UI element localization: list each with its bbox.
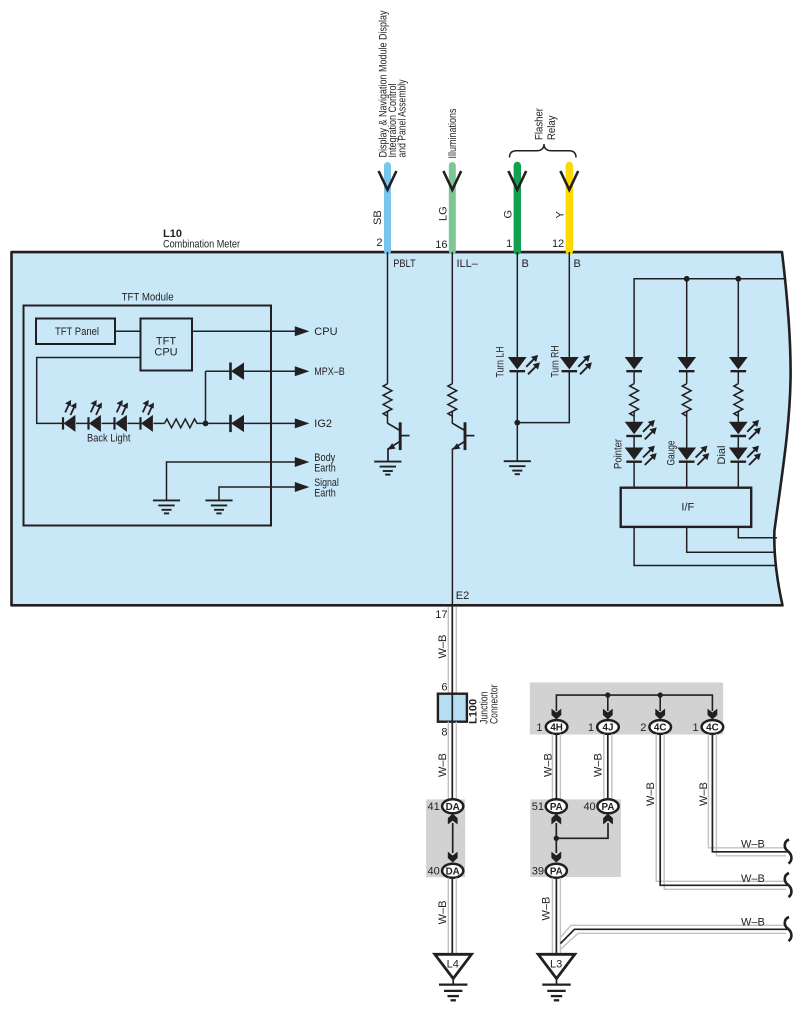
svg-text:CPU: CPU [314,326,337,338]
connector DA upper [442,799,463,813]
wire W-B PA 39 to L3 [552,878,560,955]
LED Turn LH [508,357,527,371]
svg-text:Turn RH: Turn RH [550,345,562,377]
wire W-B pin17 to L100 [448,606,456,694]
LED dial 2 [729,448,748,462]
svg-text:16: 16 [435,239,447,251]
wire Y (Flasher Relay) [566,166,573,252]
backlight LED D4 [141,415,153,432]
wire resistor to Q1 [387,412,389,424]
svg-text:I/F: I/F [681,502,694,514]
connector 4J [597,720,619,734]
arrow into 4H [552,709,562,720]
junction block (4H/4J/4C/4C) [530,683,723,735]
wire between DA connectors [452,823,454,853]
wire gauge branch from bus [686,279,688,357]
connector block PA [530,799,621,877]
svg-text:W–B: W–B [741,839,765,851]
bus wire to illumination branches [634,279,784,357]
svg-text:PBLT: PBLT [393,258,416,270]
wire node up to MPX-B diode [205,371,207,423]
arrow into DA lower [448,852,458,863]
node PA join [554,836,559,841]
svg-text:TFT Module: TFT Module [122,292,174,304]
svg-text:Dial: Dial [716,446,728,465]
diode MPX-B [231,363,245,380]
backlight LED D1 [63,415,75,432]
node bus 4J [605,692,610,697]
svg-text:2: 2 [376,237,382,249]
connector arrow on G wire [508,171,526,190]
svg-text:Illuminations: Illuminations [447,108,459,158]
svg-text:1: 1 [588,722,594,734]
bus wire in junction block [556,695,712,711]
svg-text:TFT Panel: TFT Panel [55,326,99,338]
svg-text:W–B: W–B [698,782,710,806]
TFT Module box [24,306,272,526]
svg-text:B: B [522,258,529,270]
svg-text:IG2: IG2 [314,418,332,430]
svg-text:1: 1 [506,238,512,250]
brace Flasher Relay [510,144,577,158]
wire drop 4C [659,695,661,711]
connector 4C a [649,720,671,734]
wire I/F out 3 [738,527,777,538]
wire L3 to earth [556,979,558,985]
backlight LED D2 [89,415,101,432]
connector PA 39 [546,864,567,878]
diode dial branch [729,357,748,371]
svg-text:LG: LG [438,206,450,221]
ground point L4 [435,954,472,978]
svg-text:ILL–: ILL– [457,258,479,270]
node junction [203,421,209,427]
svg-text:Connector: Connector [489,684,501,724]
svg-text:4C: 4C [706,723,719,734]
resistor R2 on ILL- [448,384,457,417]
wire Q2 emitter to pin E2 [451,449,453,607]
wire W-B tap to right (bottom) [560,925,787,949]
ground point L3 [538,954,575,978]
svg-text:W–B: W–B [741,873,765,885]
ground (body earth) [153,500,180,513]
svg-text:39: 39 [532,866,544,878]
svg-text:MPX–B: MPX–B [314,366,345,378]
svg-text:L4: L4 [447,959,459,971]
wire drop 4J [607,695,609,711]
wire diode to MPX-B arrow [244,370,296,372]
transistor Q2 [452,422,474,450]
LED gauge [677,448,696,462]
svg-text:W–B: W–B [593,753,605,777]
svg-text:SB: SB [372,210,384,225]
connector arrow on LG wire [443,171,461,190]
arrow Signal Earth [295,482,310,492]
svg-text:PA: PA [602,802,615,813]
wire B from pin 12 to Turn RH LED [568,252,570,357]
svg-text:PA: PA [550,802,563,813]
ground turn signals [504,461,531,474]
resistor R1 on PBLT [383,384,392,417]
wire Turn LH to ground node [516,372,518,461]
wire Turn RH down and left to node [517,372,569,423]
junction connector L100 [438,694,467,722]
svg-text:Turn LH: Turn LH [495,346,507,377]
svg-text:W–B: W–B [437,635,449,659]
wire LED string segments [76,422,89,424]
connector arrow on Y wire [560,171,578,190]
ground Q1 [374,462,401,475]
wire L4 to earth [452,979,454,985]
svg-text:Back Light: Back Light [87,433,131,445]
wire PA internal [555,823,557,853]
wire resistor to Q2 [451,412,453,424]
break symbol wire 1 4C [785,840,792,864]
arrow into DA upper [448,814,458,825]
resistor dial branch [734,384,743,417]
svg-text:4H: 4H [550,723,563,734]
wire PBLT from pin 2 [387,252,389,384]
arrow into 4C b [708,709,718,720]
connector PA 51 [546,799,567,813]
svg-text:40: 40 [583,801,595,813]
break symbol bottom wire [785,917,792,941]
svg-text:and Panel Assembly: and Panel Assembly [397,79,409,157]
svg-text:W–B: W–B [437,901,449,925]
node bus/dial [735,276,741,282]
svg-text:W–B: W–B [541,897,553,921]
wire I/F out 2 [687,527,776,552]
wire W-B DA to L4 [448,878,456,955]
svg-text:17: 17 [435,609,447,621]
arrow IG2 [295,418,310,428]
TFT Panel box [36,319,115,345]
wire through L100 [451,694,453,722]
svg-text:1: 1 [692,722,698,734]
LED pointer 1 [625,422,644,436]
svg-text:W–B: W–B [645,782,657,806]
svg-text:Flasher: Flasher [534,108,546,140]
I/F box U1 [621,488,752,527]
connector PA 40 [597,799,618,813]
transistor Q1 [387,422,409,461]
TFT CPU box [141,319,193,371]
wire resistor to IG2 diode [197,422,231,424]
ground symbol L4 [439,985,467,1001]
svg-text:Earth: Earth [314,463,336,475]
connector DA lower [442,864,463,878]
wire W-B 4H to 51 PA [552,734,560,799]
svg-text:Earth: Earth [314,488,336,500]
wire W-B L100 to DA [448,722,456,800]
connector 4C b [702,720,724,734]
svg-text:Gauge: Gauge [666,441,678,466]
svg-text:Combination Meter: Combination Meter [163,239,240,251]
svg-text:Pointer: Pointer [613,439,625,469]
wire TFT CPU left to backlight string [37,358,141,424]
svg-text:51: 51 [532,801,544,813]
svg-text:4C: 4C [654,723,667,734]
svg-text:L3: L3 [550,959,562,971]
resistor gauge branch [682,384,691,417]
wire G (Flasher Relay) [514,166,521,252]
svg-text:CPU: CPU [154,347,177,359]
svg-text:8: 8 [441,727,447,739]
svg-text:E2: E2 [456,590,469,602]
LED Turn RH [560,357,579,371]
wire dial branch from bus [737,279,739,357]
arrow Body Earth [295,457,310,467]
svg-text:DA: DA [446,867,460,878]
wire Body Earth [167,462,297,501]
wire TFT CPU to CPU output [192,330,296,332]
connector 4H [546,720,568,734]
svg-text:B: B [574,258,581,270]
wire resistor to pointer LEDs [633,372,635,384]
svg-text:W–B: W–B [741,917,765,929]
node bus 4C [658,692,663,697]
svg-text:2: 2 [640,722,646,734]
wire W-B 4C b to right [708,734,787,856]
svg-text:DA: DA [446,802,460,813]
svg-text:40: 40 [428,866,440,878]
connector block DA [426,799,465,877]
wire TFT Panel to TFT CPU [115,330,141,332]
svg-text:1: 1 [536,722,542,734]
arrow into PA 51 [551,814,561,825]
svg-text:PA: PA [550,867,563,878]
wire LG (Illuminations) [449,166,456,252]
wire ILL- from pin 16 [451,252,453,384]
ground symbol L3 [542,985,570,1001]
svg-text:6: 6 [441,682,447,694]
wire diode to IG2 arrow [244,422,296,424]
svg-text:4J: 4J [603,723,614,734]
svg-text:W–B: W–B [543,753,555,777]
wire Signal Earth [219,487,296,501]
wire W-B 4J to 40 PA [604,734,612,799]
svg-text:41: 41 [428,801,440,813]
wire B from pin 1 to Turn LH LED [516,252,518,357]
svg-text:Relay: Relay [546,115,558,140]
svg-text:G: G [503,210,515,219]
resistor pointer branch [630,384,639,417]
wire W-B 4C a to right [656,734,787,889]
wire pointer LEDs [633,436,635,447]
diode pointer branch [625,357,644,371]
LED dial 1 [729,422,748,436]
LED pointer 2 [625,448,644,462]
arrow MPX-B [295,366,310,376]
ground (signal earth) [205,500,232,513]
svg-text:12: 12 [552,238,564,250]
break symbol wire 2 4C [785,873,792,897]
arrow into 4C a [655,709,665,720]
arrow into PA 39 [551,852,561,863]
node turn ground [514,420,520,426]
wire SB (to Display &amp; Navigation Module) [384,166,391,252]
arrow into 4J [603,709,613,720]
resistor backlight [165,419,198,428]
arrow CPU [295,326,310,336]
arrow into PA 40 [603,814,613,825]
svg-text:W–B: W–B [437,753,449,777]
node bus/gauge [684,276,690,282]
backlight LED D3 [115,415,127,432]
wire I/F out 1 [634,527,775,566]
svg-text:Y: Y [555,211,567,219]
combination meter box L10 [12,252,791,605]
diode IG2 [231,415,245,432]
diode gauge branch [677,357,696,371]
connector arrow on SB wire [379,171,397,190]
